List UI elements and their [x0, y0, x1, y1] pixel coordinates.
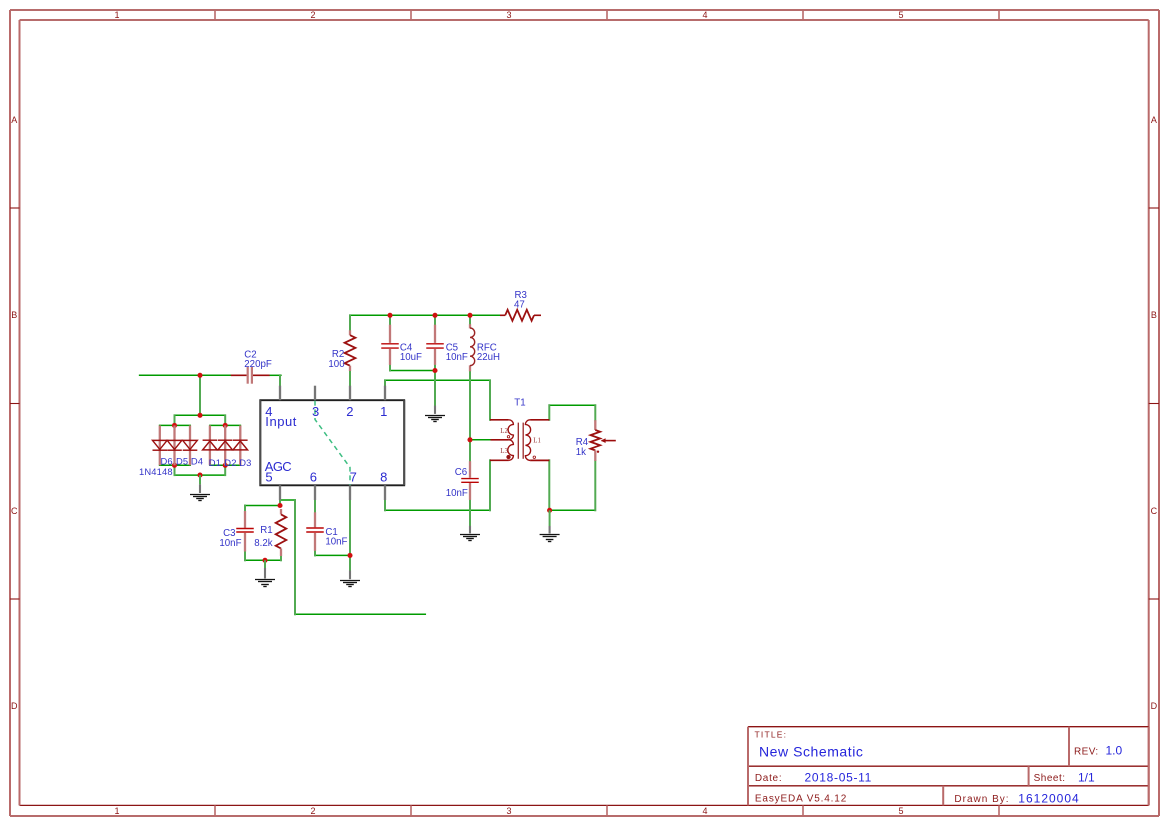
wire: [390, 370, 435, 372]
wire: [295, 613, 425, 615]
wire: [174, 415, 176, 425]
capacitor C1: [306, 512, 324, 551]
svg-text:EasyEDA V5.4.12: EasyEDA V5.4.12: [755, 794, 847, 805]
svg-text:10nF: 10nF: [219, 538, 241, 549]
wire: [245, 559, 281, 561]
svg-text:L1: L1: [533, 438, 541, 445]
label R1: [254, 525, 272, 549]
junction: [277, 503, 282, 508]
junction: [223, 463, 228, 468]
diode D1: [203, 425, 218, 465]
wire: [469, 371, 471, 440]
wire: [549, 404, 595, 406]
wire: [174, 465, 176, 475]
label C1: [325, 527, 347, 548]
junction: [432, 313, 437, 318]
svg-text:B: B: [1151, 310, 1157, 320]
sheet text: [1034, 771, 1095, 785]
diode D3: [233, 425, 248, 465]
junction: [172, 423, 177, 428]
svg-text:2: 2: [310, 806, 315, 816]
svg-text:Sheet:: Sheet:: [1034, 773, 1066, 784]
svg-text:3: 3: [506, 10, 511, 20]
svg-text:A: A: [11, 115, 17, 125]
wire: [175, 474, 226, 476]
wire: [434, 371, 436, 406]
svg-text:3: 3: [506, 806, 511, 816]
inductor RFC: [470, 324, 475, 371]
junction: [197, 413, 202, 418]
svg-text:2018-05-11: 2018-05-11: [805, 771, 873, 785]
wire: [594, 405, 596, 420]
wire: [279, 375, 281, 386]
svg-text:16120004: 16120004: [1018, 791, 1079, 805]
capacitor C4: [381, 325, 399, 365]
svg-text:L2: L2: [500, 428, 508, 435]
junction: [547, 508, 552, 513]
junction: [347, 553, 352, 558]
wire: [224, 415, 226, 425]
svg-text:Date:: Date:: [755, 773, 782, 784]
svg-text:1N4148: 1N4148: [139, 466, 173, 477]
junction: [223, 423, 228, 428]
wire: [270, 374, 281, 376]
title text: [755, 729, 864, 759]
wire: [160, 464, 191, 466]
wire: [470, 439, 491, 441]
wire: [244, 552, 246, 561]
wire: [280, 499, 295, 501]
svg-text:REV:: REV:: [1074, 746, 1099, 757]
label C2: [244, 350, 272, 370]
svg-text:5: 5: [898, 806, 903, 816]
diode D6: [153, 425, 168, 465]
wire: [550, 509, 596, 511]
ground: [255, 560, 275, 586]
svg-text:1.0: 1.0: [1106, 744, 1123, 758]
wire: [244, 506, 246, 512]
wire: [489, 460, 491, 510]
drawn-by text: [954, 791, 1079, 805]
wire: [199, 375, 201, 415]
svg-text:8: 8: [380, 470, 387, 485]
svg-text:C6: C6: [455, 467, 467, 478]
svg-text:Input: Input: [265, 414, 297, 429]
label C6: [446, 467, 468, 499]
svg-text:D5: D5: [176, 456, 188, 467]
wire: [548, 460, 550, 510]
junction: [197, 473, 202, 478]
svg-text:D: D: [11, 701, 18, 711]
wire: [385, 379, 490, 381]
svg-text:1: 1: [114, 10, 119, 20]
svg-text:5: 5: [898, 10, 903, 20]
title block: [748, 727, 1149, 806]
svg-text:D1: D1: [209, 457, 221, 468]
wire: [389, 365, 391, 371]
wire: [384, 500, 386, 510]
svg-text:4: 4: [702, 10, 707, 20]
label R3: [514, 290, 527, 311]
svg-text:47: 47: [514, 299, 525, 310]
svg-text:7: 7: [350, 470, 357, 485]
svg-text:2: 2: [310, 10, 315, 20]
wire: [434, 315, 436, 324]
wire: [314, 551, 316, 556]
label RFC: [477, 343, 500, 364]
svg-text:TITLE:: TITLE:: [755, 729, 788, 739]
svg-text:3: 3: [312, 404, 319, 419]
svg-text:4: 4: [702, 806, 707, 816]
wire: [384, 380, 386, 386]
svg-text:1/1: 1/1: [1078, 771, 1095, 785]
wire: [245, 505, 280, 507]
IC U1: [260, 386, 404, 500]
junction: [467, 437, 472, 442]
svg-text:100: 100: [328, 359, 345, 370]
svg-text:D2: D2: [224, 457, 236, 468]
wire: [469, 315, 471, 324]
diode D4: [183, 425, 198, 465]
label D1 D2 D3: [209, 457, 252, 468]
wire: [314, 501, 316, 513]
junction: [387, 313, 392, 318]
resistor R3: [500, 310, 541, 321]
ground: [425, 406, 445, 422]
wire: [210, 424, 241, 426]
svg-text:D3: D3: [239, 457, 251, 468]
capacitor C3: [236, 511, 254, 552]
wire: [280, 556, 282, 560]
resistor R4: [591, 420, 616, 461]
rev text: [1074, 744, 1123, 758]
wire: [224, 465, 226, 475]
wire: [175, 414, 226, 416]
junction: [262, 558, 267, 563]
ground: [540, 510, 560, 541]
svg-text:A: A: [1151, 115, 1157, 125]
resistor R1: [276, 509, 287, 556]
svg-text:6: 6: [310, 470, 317, 485]
svg-text:10uF: 10uF: [400, 352, 422, 363]
svg-text:5: 5: [265, 470, 272, 485]
svg-text:1k: 1k: [576, 447, 586, 458]
ground: [340, 571, 360, 587]
capacitor C6: [461, 461, 479, 500]
svg-text:C: C: [11, 506, 18, 516]
label C4: [400, 343, 422, 364]
wire: [349, 500, 351, 571]
wire: [385, 509, 490, 511]
label C5: [446, 343, 468, 364]
wire: [315, 554, 350, 556]
svg-text:T1: T1: [514, 398, 525, 409]
svg-text:Drawn By:: Drawn By:: [954, 794, 1009, 805]
svg-text:R1: R1: [260, 525, 272, 536]
svg-text:1: 1: [380, 404, 387, 419]
diode D2: [218, 425, 233, 465]
wire: [489, 380, 491, 420]
label R2: [328, 349, 345, 370]
junction: [172, 463, 177, 468]
label R4: [576, 437, 589, 458]
wire: [349, 371, 351, 386]
ground: [190, 475, 210, 500]
wire: [594, 461, 596, 510]
capacitor C5: [426, 325, 444, 365]
wire: [294, 500, 296, 614]
svg-text:220pF: 220pF: [244, 359, 272, 370]
svg-text:D4: D4: [191, 456, 203, 467]
transformer T1: [490, 420, 549, 461]
wire: [160, 424, 191, 426]
wire: [350, 314, 500, 316]
junction: [432, 368, 437, 373]
svg-text:New Schematic: New Schematic: [759, 744, 863, 760]
wire: [140, 374, 231, 376]
svg-text:B: B: [11, 310, 17, 320]
wire: [469, 500, 471, 526]
wire: [389, 315, 391, 324]
junction: [467, 313, 472, 318]
svg-text:10nF: 10nF: [325, 537, 347, 548]
svg-text:8.2k: 8.2k: [254, 538, 272, 549]
svg-text:D: D: [1151, 701, 1158, 711]
version text: [755, 794, 847, 805]
wire: [469, 440, 471, 461]
resistor R2: [345, 330, 356, 371]
label C3: [219, 528, 241, 549]
date text: [755, 771, 872, 785]
wire: [434, 365, 436, 371]
label D6 D5 D4: [161, 456, 204, 467]
svg-text:2: 2: [346, 404, 353, 419]
svg-text:1: 1: [114, 806, 119, 816]
junction: [197, 373, 202, 378]
svg-text:C: C: [1151, 506, 1158, 516]
capacitor C2: [231, 367, 270, 384]
svg-text:10nF: 10nF: [446, 488, 468, 499]
wire: [279, 500, 281, 506]
svg-text:10nF: 10nF: [446, 352, 468, 363]
svg-text:L3: L3: [500, 448, 508, 455]
wire: [210, 464, 241, 466]
wire: [548, 405, 550, 420]
wire: [349, 315, 351, 330]
svg-text:22uH: 22uH: [477, 352, 500, 363]
diode D5: [167, 425, 182, 465]
ground: [460, 526, 480, 541]
